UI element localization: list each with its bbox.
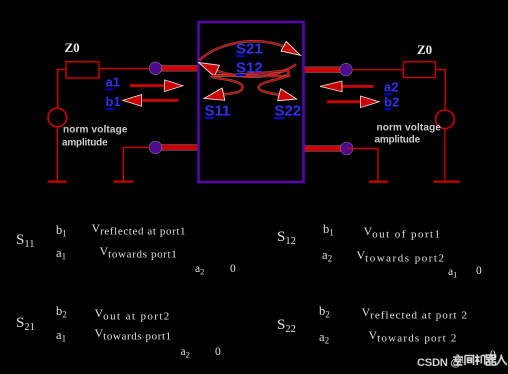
node dot top left [149, 62, 162, 75]
S11 reflection hook arrow [212, 75, 290, 94]
arrow b1 reflected wave [142, 99, 179, 102]
svg-text:b2: b2 [384, 95, 399, 110]
svg-text:Vreflected at port 2: Vreflected at port 2 [362, 305, 469, 322]
svg-text:Vout of port1: Vout of port1 [364, 224, 442, 241]
svg-text:a2: a2 [384, 80, 398, 95]
ground right inner [369, 181, 388, 183]
svg-text:S11: S11 [205, 103, 231, 120]
svg-text:Vreflected at port1: Vreflected at port1 [92, 221, 187, 238]
wire thick left bottom into box [159, 144, 202, 151]
wire thick right top into box [300, 66, 341, 73]
ground right outer [434, 181, 460, 183]
arrow a2 incident wave right [341, 85, 374, 88]
wire thick left top into box [160, 65, 202, 72]
wire left source to resistor [58, 70, 66, 109]
svg-text:S22: S22 [277, 317, 296, 335]
arrow a1 incident wave [130, 84, 166, 87]
svg-text:amplitude: amplitude [62, 138, 108, 149]
svg-text:a1: a1 [448, 266, 457, 280]
svg-text:Z0: Z0 [65, 40, 80, 55]
svg-text:b2: b2 [56, 304, 67, 320]
svg-text:b2: b2 [319, 304, 330, 320]
node dot bottom right [340, 142, 353, 155]
ground left outer [48, 181, 67, 183]
svg-text:Vtowards port1: Vtowards port1 [100, 244, 178, 261]
node dot bottom left [149, 141, 162, 154]
svg-text:Vout at port2: Vout at port2 [95, 306, 171, 323]
svg-text:b1: b1 [56, 223, 67, 239]
svg-text:0: 0 [215, 346, 221, 358]
svg-text:a1: a1 [106, 75, 120, 90]
svg-text:a2: a2 [195, 263, 204, 277]
S22 reflection hook arrow [213, 71, 289, 95]
resistor Z0 right [404, 62, 436, 78]
S21 transmission arc arrow [200, 41, 284, 60]
wire bottom left node to ground [123, 147, 150, 181]
wire thick right bottom into box [300, 145, 342, 152]
wire bottom right node to ground [347, 149, 378, 182]
ground left inner [114, 181, 134, 183]
svg-text:norm voltage: norm voltage [63, 125, 128, 136]
wire source to ground left [56, 127, 58, 181]
svg-text:S12: S12 [236, 60, 263, 77]
svg-text:Vtowards port2: Vtowards port2 [357, 248, 446, 265]
svg-text:a1: a1 [56, 246, 66, 262]
wire node top right to resistor [352, 69, 404, 71]
source V2 right circle [436, 110, 455, 129]
resistor Z0 left [66, 62, 99, 78]
svg-text:a2: a2 [322, 248, 332, 264]
svg-text:S21: S21 [16, 315, 35, 333]
svg-text:b1: b1 [323, 222, 334, 238]
svg-text:S22: S22 [275, 103, 302, 120]
source V1 left circle [48, 108, 67, 127]
wire source to ground right [444, 129, 446, 181]
wire resistor to source right [436, 70, 446, 111]
svg-text:0: 0 [230, 263, 236, 275]
svg-text:a2: a2 [181, 346, 190, 360]
svg-text:S11: S11 [16, 232, 34, 250]
svg-text:norm voltage: norm voltage [377, 123, 442, 134]
svg-text:Vtowards port1: Vtowards port1 [95, 326, 172, 343]
svg-text:S12: S12 [277, 229, 296, 247]
svg-text:CSDN @: CSDN @ [417, 357, 461, 369]
wire resistor to node top left [99, 68, 150, 70]
svg-text:Z0: Z0 [417, 42, 432, 57]
svg-text:b1: b1 [106, 94, 121, 109]
watermark chinese glyphs [453, 355, 507, 366]
svg-text:a2: a2 [319, 330, 329, 346]
svg-text:a1: a1 [56, 328, 66, 344]
two-port network box [199, 22, 304, 182]
svg-text:Vtowards port 2: Vtowards port 2 [369, 328, 458, 345]
svg-text:0: 0 [476, 265, 482, 277]
node dot top right [340, 63, 353, 76]
S12 reverse transmission arc arrow [217, 64, 296, 76]
svg-text:amplitude: amplitude [375, 135, 421, 146]
arrow b2 transmitted wave right [327, 101, 361, 104]
svg-text:S21: S21 [236, 41, 263, 58]
